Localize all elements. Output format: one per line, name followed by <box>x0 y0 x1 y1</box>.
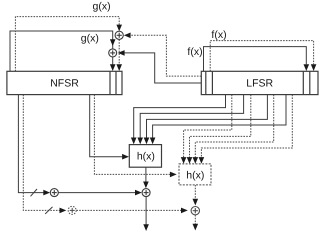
svg-text:f(x): f(x) <box>211 29 226 41</box>
wire h(x) dotted output down to XOR X6 <box>194 185 196 199</box>
wire f(x) solid feedback loop into LFSR right end <box>204 47 307 72</box>
svg-text:h(x): h(x) <box>186 169 204 181</box>
wire X5 keystream output arrow <box>145 197 147 225</box>
svg-text:g(x): g(x) <box>93 0 111 12</box>
wire LFSR dotted tap 1 to h(x) dotted <box>184 95 232 158</box>
wire X3 to X5 (solid keystream line) <box>58 192 135 194</box>
wire LFSR tap 3 to h(x) solid <box>147 95 268 138</box>
XOR gate X5 (solid keystream out) <box>142 189 150 197</box>
wire X6 keystream output arrow (dotted) <box>194 215 196 224</box>
wire X4 to X6 (dotted keystream line) <box>76 209 181 211</box>
XOR gate X2 (g solid) <box>109 49 117 57</box>
wire LFSR tap 2 to h(x) solid <box>140 95 243 138</box>
wire NFSR tap to h(x) dotted input <box>94 95 170 175</box>
XOR gate X1 (g dotted) <box>115 31 123 39</box>
filter h(x) dotted box <box>179 164 211 185</box>
wire g(x) solid feedback from NFSR top to XOR X2 <box>10 31 113 71</box>
wire LFSR s0 output to XOR X1 (dotted) <box>130 35 201 76</box>
XOR gate X3 (solid keystream) <box>50 189 58 197</box>
filter h(x) solid box <box>129 145 161 168</box>
bus slash on dotted keystream line <box>45 207 52 214</box>
wire X2 output into NFSR top <box>112 57 114 65</box>
XOR gate X4 (dotted keystream) <box>68 206 76 214</box>
svg-text:g(x): g(x) <box>81 32 99 44</box>
wire LFSR tap 4 to h(x) solid <box>153 95 286 138</box>
wire LFSR s0 output to XOR X2 (solid) <box>124 53 201 83</box>
wire LFSR dotted tap 4 to h(x) dotted <box>201 95 292 158</box>
wire LFSR dotted tap 2 to h(x) dotted <box>190 95 251 158</box>
svg-text:NFSR: NFSR <box>50 77 79 89</box>
wire f(x) dotted feedback loop into LFSR right end <box>210 41 313 72</box>
wire g(x) dotted feedback from NFSR top to XOR X1 <box>15 17 119 72</box>
svg-text:f(x): f(x) <box>187 46 202 58</box>
wire LFSR dotted tap 3 to h(x) dotted <box>195 95 273 158</box>
wire NFSR tap to h(x) solid input <box>90 95 123 157</box>
wire NFSR b0 tap down to keystream XOR X4 (dotted) <box>23 95 59 211</box>
svg-text:LFSR: LFSR <box>246 77 273 89</box>
svg-text:h(x): h(x) <box>137 150 155 162</box>
wire h(x) solid output down to XOR X5 <box>145 167 147 182</box>
XOR gate X6 (dotted keystream out) <box>191 207 199 215</box>
register NFSR <box>7 71 122 94</box>
bus slash on solid keystream line <box>31 189 38 196</box>
register LFSR <box>201 71 318 94</box>
wire NFSR b0 tap down to keystream XOR X3 <box>18 95 43 193</box>
wire X1 output into NFSR top (dotted) <box>118 39 120 65</box>
wire LFSR tap 1 to h(x) solid <box>134 95 226 138</box>
